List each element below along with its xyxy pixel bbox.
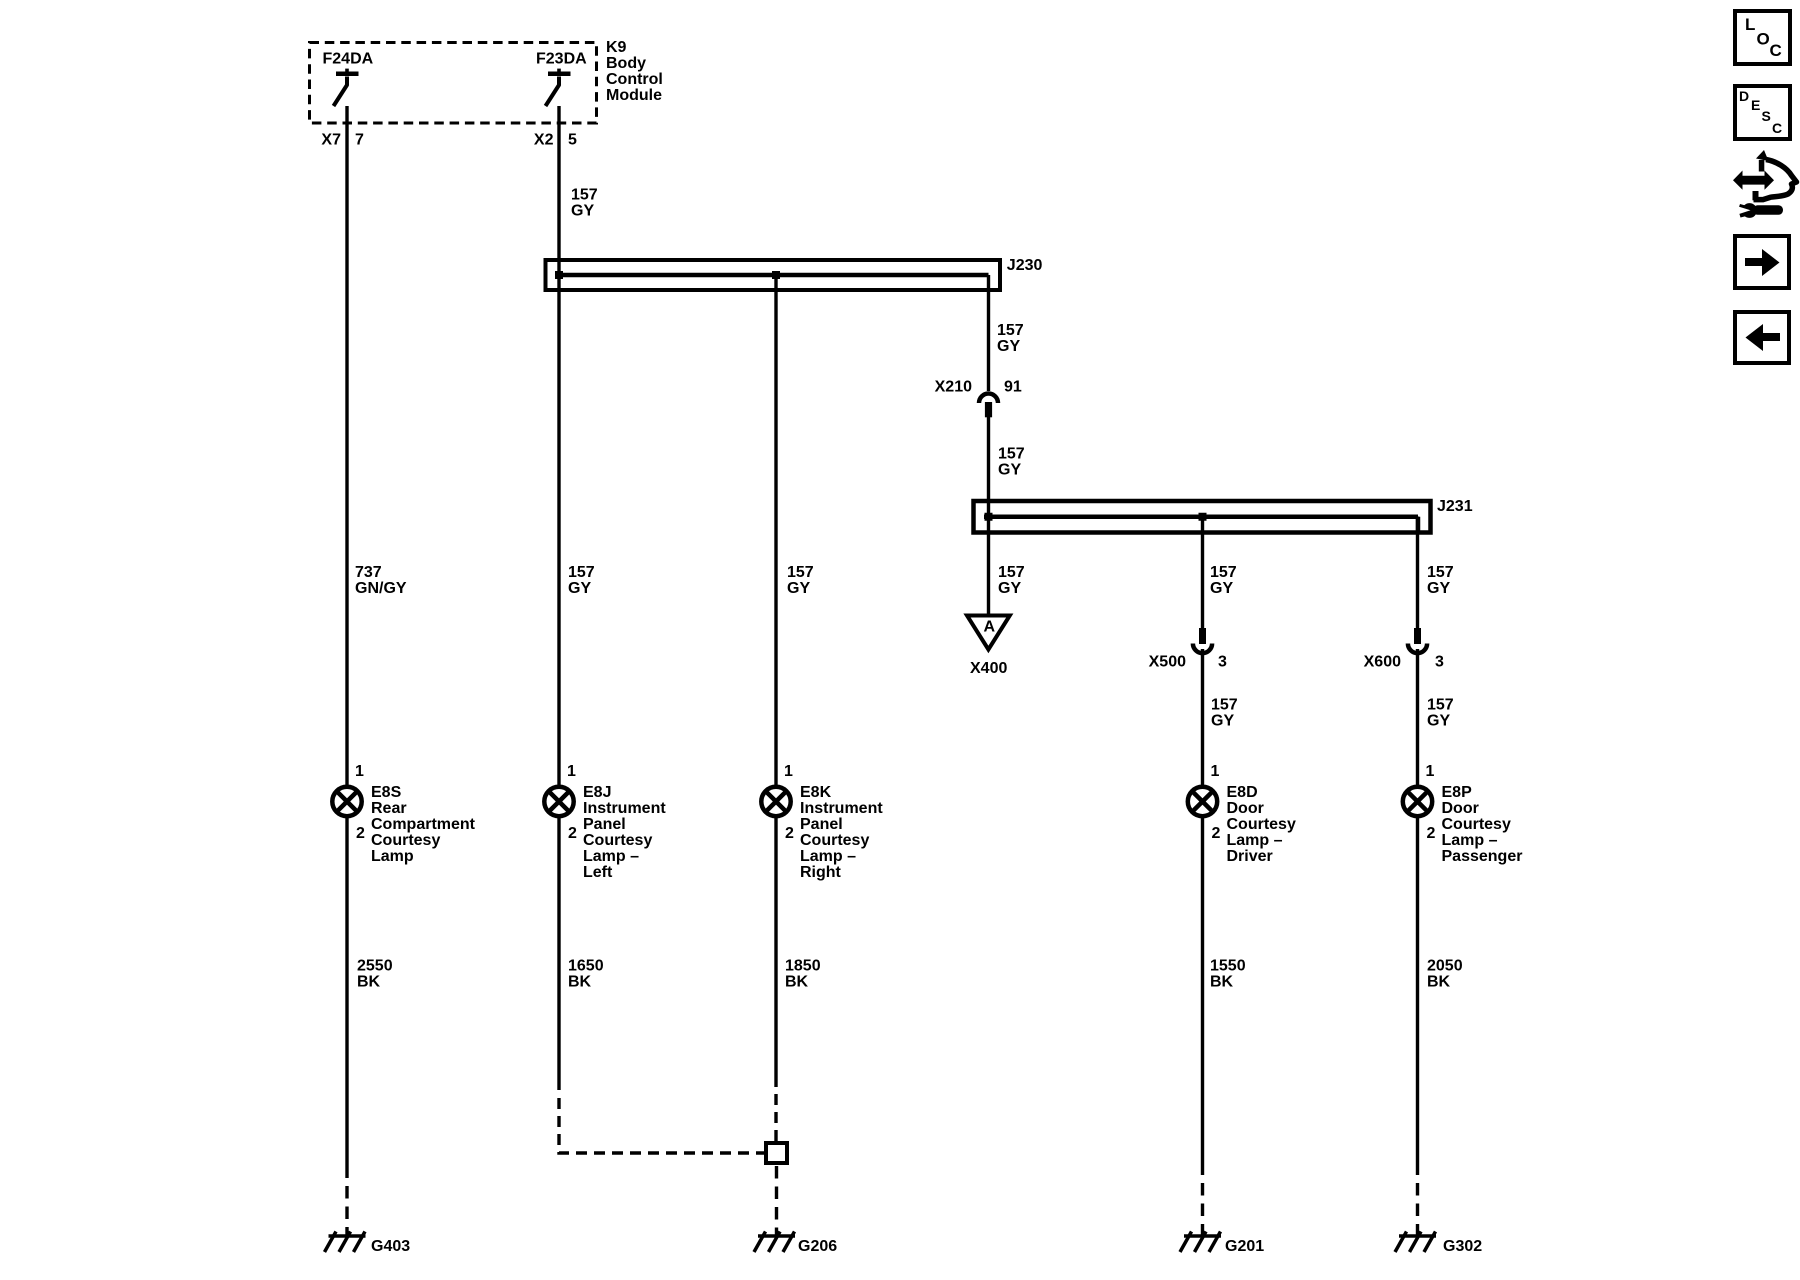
svg-text:Panel: Panel: [583, 816, 626, 833]
svg-text:Left: Left: [583, 864, 613, 881]
svg-text:GY: GY: [1211, 713, 1234, 730]
svg-text:J230: J230: [1007, 257, 1043, 274]
svg-text:3: 3: [1435, 654, 1444, 671]
svg-text:C: C: [1772, 120, 1782, 136]
svg-text:GY: GY: [1427, 580, 1450, 597]
svg-text:Door: Door: [1227, 800, 1264, 817]
svg-text:Courtesy: Courtesy: [371, 832, 440, 849]
svg-text:Passenger: Passenger: [1442, 848, 1523, 865]
svg-text:Lamp –: Lamp –: [583, 848, 639, 865]
svg-text:A: A: [984, 619, 996, 636]
svg-text:1: 1: [355, 763, 364, 780]
svg-text:GY: GY: [998, 580, 1021, 597]
svg-text:157: 157: [998, 564, 1025, 581]
svg-text:7: 7: [355, 132, 364, 149]
svg-text:157: 157: [998, 446, 1025, 463]
svg-text:GY: GY: [787, 580, 810, 597]
svg-text:Lamp –: Lamp –: [1227, 832, 1283, 849]
svg-text:2: 2: [568, 825, 577, 842]
svg-text:1850: 1850: [785, 958, 821, 975]
svg-text:G302: G302: [1443, 1238, 1482, 1255]
svg-text:Rear: Rear: [371, 800, 407, 817]
svg-text:X2: X2: [534, 132, 554, 149]
svg-text:Courtesy: Courtesy: [583, 832, 652, 849]
svg-text:2: 2: [785, 825, 794, 842]
svg-text:91: 91: [1004, 379, 1022, 396]
svg-text:157: 157: [787, 564, 814, 581]
svg-text:157: 157: [568, 564, 595, 581]
svg-text:157: 157: [1211, 697, 1238, 714]
svg-text:157: 157: [997, 322, 1024, 339]
svg-text:C: C: [1770, 41, 1782, 60]
svg-text:E8J: E8J: [583, 784, 611, 801]
svg-text:S: S: [1762, 108, 1771, 124]
svg-text:F24DA: F24DA: [323, 51, 374, 68]
svg-text:Instrument: Instrument: [583, 800, 666, 817]
svg-text:G206: G206: [798, 1238, 837, 1255]
svg-text:1: 1: [784, 763, 793, 780]
svg-text:GY: GY: [568, 580, 591, 597]
svg-text:157: 157: [1427, 564, 1454, 581]
svg-text:Instrument: Instrument: [800, 800, 883, 817]
svg-text:GY: GY: [997, 338, 1020, 355]
svg-text:5: 5: [568, 132, 577, 149]
svg-text:L: L: [1745, 15, 1755, 34]
svg-text:BK: BK: [1427, 974, 1451, 991]
svg-text:BK: BK: [1210, 974, 1234, 991]
svg-text:D: D: [1739, 88, 1749, 104]
svg-text:157: 157: [1210, 564, 1237, 581]
svg-text:X400: X400: [970, 660, 1007, 677]
svg-text:Lamp –: Lamp –: [1442, 832, 1498, 849]
svg-text:2050: 2050: [1427, 958, 1463, 975]
svg-text:Module: Module: [606, 87, 662, 104]
svg-text:157: 157: [571, 187, 598, 204]
svg-text:GY: GY: [1427, 713, 1450, 730]
svg-text:G403: G403: [371, 1238, 410, 1255]
svg-text:Courtesy: Courtesy: [1227, 816, 1296, 833]
svg-text:1: 1: [1426, 763, 1435, 780]
svg-text:1650: 1650: [568, 958, 604, 975]
svg-text:Door: Door: [1442, 800, 1479, 817]
svg-text:Lamp –: Lamp –: [800, 848, 856, 865]
svg-text:1550: 1550: [1210, 958, 1246, 975]
svg-text:Right: Right: [800, 864, 842, 881]
svg-text:X500: X500: [1149, 654, 1186, 671]
svg-text:2550: 2550: [357, 958, 393, 975]
svg-text:E8D: E8D: [1227, 784, 1258, 801]
svg-text:GY: GY: [998, 462, 1021, 479]
svg-text:O: O: [1757, 30, 1770, 49]
svg-text:X600: X600: [1364, 654, 1401, 671]
svg-text:Courtesy: Courtesy: [1442, 816, 1511, 833]
svg-text:GY: GY: [571, 203, 594, 220]
svg-text:Body: Body: [606, 55, 646, 72]
svg-text:Compartment: Compartment: [371, 816, 476, 833]
svg-text:Lamp: Lamp: [371, 848, 414, 865]
svg-text:E8S: E8S: [371, 784, 402, 801]
svg-text:G201: G201: [1225, 1238, 1264, 1255]
svg-text:K9: K9: [606, 39, 627, 56]
svg-text:2: 2: [356, 825, 365, 842]
svg-text:X210: X210: [935, 379, 972, 396]
svg-text:1: 1: [567, 763, 576, 780]
svg-text:F23DA: F23DA: [536, 51, 587, 68]
svg-text:Panel: Panel: [800, 816, 843, 833]
svg-text:3: 3: [1218, 654, 1227, 671]
svg-text:Driver: Driver: [1227, 848, 1273, 865]
svg-text:J231: J231: [1437, 498, 1473, 515]
svg-text:1: 1: [1211, 763, 1220, 780]
svg-text:E: E: [1751, 97, 1760, 113]
svg-text:GY: GY: [1210, 580, 1233, 597]
svg-text:E8P: E8P: [1442, 784, 1473, 801]
svg-text:GN/GY: GN/GY: [355, 580, 407, 597]
svg-text:737: 737: [355, 564, 382, 581]
svg-text:Courtesy: Courtesy: [800, 832, 869, 849]
svg-text:BK: BK: [568, 974, 592, 991]
svg-text:BK: BK: [785, 974, 809, 991]
svg-text:2: 2: [1427, 825, 1436, 842]
svg-text:Control: Control: [606, 71, 663, 88]
svg-text:BK: BK: [357, 974, 381, 991]
svg-text:E8K: E8K: [800, 784, 832, 801]
svg-text:2: 2: [1212, 825, 1221, 842]
svg-text:157: 157: [1427, 697, 1454, 714]
svg-text:X7: X7: [321, 132, 341, 149]
